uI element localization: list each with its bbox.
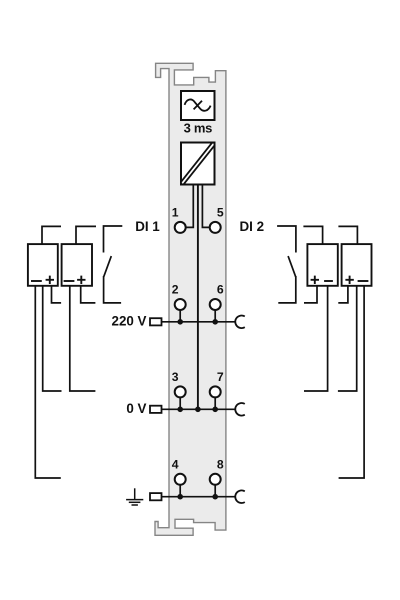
- AC symbol slash: [194, 101, 202, 110]
- S2 minus sign: [64, 280, 75, 282]
- wire: terminal 2 stub: [179, 308, 181, 322]
- wire: S1 top hook: [42, 226, 61, 244]
- 0 V socket arc: [235, 403, 245, 416]
- wire: terminal 8 stub: [214, 483, 216, 497]
- 0 V port rect: [150, 406, 162, 413]
- switch SW1 blade: [104, 256, 112, 277]
- junction dot bus / 0V rail: [195, 407, 201, 413]
- ground symbol: [126, 488, 143, 505]
- S3 plus sign: [311, 276, 319, 284]
- wire: S2 plus lead hook: [81, 286, 96, 303]
- wire: opto-coupler to terminal 5: [202, 184, 210, 227]
- wire: terminal 3 stub: [179, 395, 181, 409]
- terminal 2: [175, 299, 186, 310]
- opto-coupler / isolation box U1: [181, 143, 215, 185]
- wire: S2 mid lead to 0V hook: [70, 286, 96, 391]
- terminal 7: [210, 386, 221, 397]
- junction dot terminal 2 / 220V rail: [177, 319, 183, 325]
- wire: opto-coupler to terminal 1: [186, 184, 194, 227]
- terminal 5: [210, 222, 221, 233]
- wire: S3 mid lead to 0V hook: [304, 286, 328, 391]
- wire: S3 plus lead hook: [304, 286, 317, 303]
- AC sine symbol inside filter box: [185, 99, 211, 110]
- wire: S3 top hook: [303, 226, 322, 244]
- right sensor S3 box: [307, 244, 337, 286]
- svg-text:5: 5: [217, 206, 224, 220]
- wire: terminal 7 stub: [214, 395, 216, 409]
- svg-text:1: 1: [172, 206, 179, 220]
- module body outline (I/O module housing): [155, 63, 226, 535]
- svg-text:4: 4: [172, 458, 179, 472]
- switch SW1 top bracket: [104, 226, 123, 253]
- wire: S4 top hook: [338, 226, 357, 244]
- wire: internal bus line from opto-coupler to 0V rail (node center): [197, 184, 199, 409]
- S2 plus sign: [77, 276, 85, 284]
- switch SW1 bottom lead: [104, 276, 122, 303]
- switch SW2 blade: [288, 256, 296, 277]
- isolation double diagonal: [182, 144, 213, 183]
- 220 V socket arc: [235, 315, 245, 328]
- wire: S1 mid lead to 0V hook: [43, 286, 62, 391]
- svg-text:6: 6: [217, 283, 224, 297]
- earth port rect: [150, 493, 162, 500]
- terminal 3: [175, 386, 186, 397]
- svg-text:DI 1: DI 1: [135, 219, 160, 234]
- svg-text:0 V: 0 V: [126, 401, 146, 416]
- filter box (AC input filter, 3 ms): [181, 91, 215, 120]
- svg-text:DI 2: DI 2: [240, 219, 265, 234]
- wire: S2 top hook: [76, 226, 96, 244]
- svg-text:220 V: 220 V: [112, 314, 147, 329]
- S1 minus sign: [31, 280, 42, 282]
- earth rail: [161, 496, 235, 498]
- junction dot terminal 6 / 220V rail: [212, 319, 218, 325]
- left sensor S2 box: [62, 244, 92, 286]
- wire: terminal 4 stub: [179, 483, 181, 497]
- svg-text:7: 7: [217, 370, 224, 384]
- wire: terminal 6 stub: [214, 308, 216, 322]
- switch SW2 bottom lead: [278, 276, 296, 303]
- wire: S4 mid lead to 0V hook: [338, 286, 357, 391]
- wire: S4 minus lead to earth hook: [339, 286, 365, 478]
- S4 minus sign: [358, 280, 369, 282]
- S1 plus sign: [46, 276, 54, 284]
- svg-text:3: 3: [172, 370, 179, 384]
- S4 plus sign: [345, 276, 353, 284]
- earth socket arc: [235, 490, 245, 503]
- junction dot terminal 4 / earth rail: [177, 494, 183, 500]
- S3 minus sign: [324, 280, 333, 282]
- terminal 1: [175, 222, 186, 233]
- terminal 8: [210, 474, 221, 485]
- junction dot terminal 3 / 0V rail: [177, 407, 183, 413]
- wire: S1 plus lead hook: [52, 286, 62, 303]
- wire: S1 minus lead to earth hook: [35, 286, 61, 478]
- right sensor S4 box: [342, 244, 372, 286]
- svg-text:3 ms: 3 ms: [184, 120, 213, 135]
- 220 V port rect: [150, 318, 162, 325]
- switch SW2 top bracket: [277, 226, 296, 253]
- 0 V rail: [161, 408, 235, 410]
- left sensor S1 box: [28, 244, 58, 286]
- junction dot terminal 8 / earth rail: [212, 494, 218, 500]
- wire: S4 plus lead hook: [338, 286, 348, 303]
- svg-text:8: 8: [217, 458, 224, 472]
- terminal 4: [175, 474, 186, 485]
- svg-text:2: 2: [172, 283, 179, 297]
- junction dot terminal 7 / 0V rail: [212, 407, 218, 413]
- 220 V rail: [161, 321, 235, 323]
- terminal 6: [210, 299, 221, 310]
